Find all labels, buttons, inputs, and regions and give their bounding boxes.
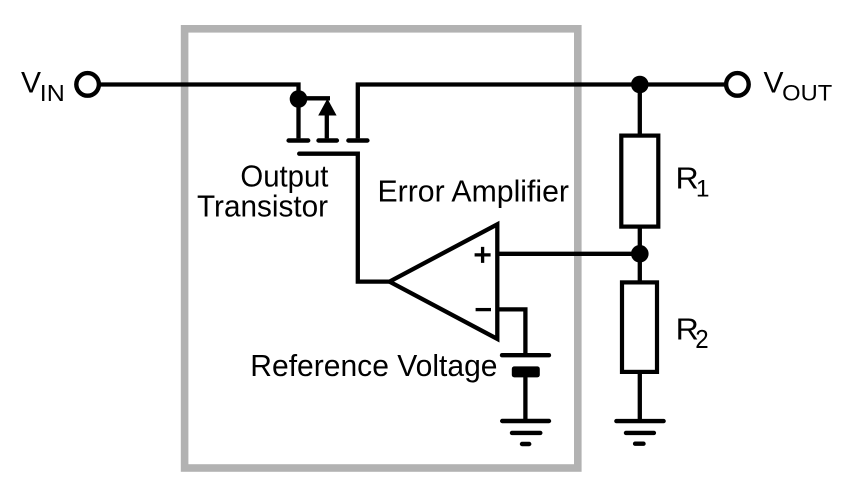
svg-text:2: 2 <box>695 324 708 354</box>
svg-text:Error Amplifier: Error Amplifier <box>378 173 570 208</box>
svg-text:IN: IN <box>40 80 65 106</box>
svg-text:Reference Voltage: Reference Voltage <box>250 348 497 383</box>
svg-text:1: 1 <box>696 176 710 203</box>
svg-text:V: V <box>21 67 41 100</box>
svg-text:Transistor: Transistor <box>197 189 328 224</box>
svg-text:V: V <box>764 67 784 100</box>
svg-text:OUT: OUT <box>782 80 832 105</box>
